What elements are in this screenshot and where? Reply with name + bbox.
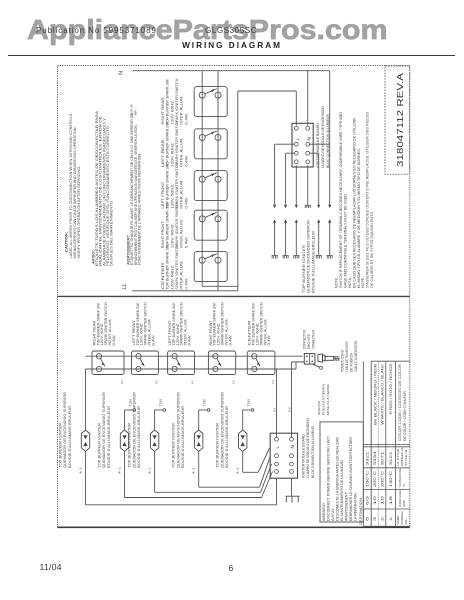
spark electrode lead at x=296.3 xyxy=(293,219,299,258)
wire: drop to module pin N (bottom) xyxy=(291,362,293,438)
svg-text:SWITCH IF REPLACEMENT OF TERMI: SWITCH IF REPLACEMENT OF TERMINALS BECOM… xyxy=(339,112,343,288)
svg-text:EL MANTENIMIENTO DE LA UNIDAD.: EL MANTENIMIENTO DE LA UNIDAD. xyxy=(340,459,344,521)
header rule xyxy=(8,55,455,56)
svg-text:4-3: 4-3 xyxy=(120,380,124,384)
note: WARNING block xyxy=(322,436,358,521)
wire: igniter E2 return staircase xyxy=(125,451,273,497)
svg-text:S'ASSURER SI DES FILS OU DES C: S'ASSURER SI DES FILS OU DES CORDES DOIV… xyxy=(366,111,370,288)
svg-text:DE COLOR / CODE COULEUR: DE COLOR / CODE COULEUR xyxy=(403,390,407,441)
svg-text:CENTER: CENTER xyxy=(161,262,165,290)
svg-text:INTER. ALLUM.: INTER. ALLUM. xyxy=(180,138,184,167)
svg-text:4-1: 4-1 xyxy=(147,466,151,474)
svg-text:TOP BURNER IGNITER: TOP BURNER IGNITER xyxy=(97,422,101,468)
svg-text:0.4W.: 0.4W. xyxy=(184,197,188,209)
svg-text:120V. 60HZ.: 120V. 60HZ. xyxy=(170,184,174,209)
wire: igniter E4 electrode lead with terminal xyxy=(199,409,210,430)
svg-text:4-3: 4-3 xyxy=(154,380,158,384)
svg-text:150°C: 150°C xyxy=(366,470,370,487)
wire: switch chain to igniter E1 xyxy=(85,369,87,430)
label: switch S8 LEFT FRONT xyxy=(168,302,192,346)
table text: row 1 UL style numbers xyxy=(366,451,394,465)
svg-text:4-1: 4-1 xyxy=(78,466,82,474)
svg-text:RIGHT FRONT: RIGHT FRONT xyxy=(161,221,165,248)
spark electrode lead at x=285.6 xyxy=(283,219,289,258)
svg-text:SPARK IGNITER SWITCH: SPARK IGNITER SWITCH xyxy=(175,78,179,125)
svg-text:AVISO:: AVISO: xyxy=(331,508,335,521)
footer page number xyxy=(229,563,234,573)
svg-text:INTER. ALLUM.: INTER. ALLUM. xyxy=(180,219,184,248)
switch S6 top-burner spark switch (RIGHT REAR, bottom row) xyxy=(92,351,124,375)
svg-text:NOTE:: NOTE: xyxy=(335,277,339,288)
wire: N bus horizontal xyxy=(133,70,330,72)
svg-text:0.4W.: 0.4W. xyxy=(151,334,155,345)
label: switch S6 RIGHT REAR xyxy=(92,302,116,346)
igniter E1 top burner igniter xyxy=(81,430,89,451)
svg-text:CABLE D'ALIMENTATION: CABLE D'ALIMENTATION xyxy=(354,341,358,372)
svg-text:NOTE:: NOTE: xyxy=(361,277,365,288)
svg-text:VERIFY PROPER OPERATION AFTER: VERIFY PROPER OPERATION AFTER SERVICING. xyxy=(77,166,81,259)
label: igniter E5 xyxy=(216,391,230,468)
svg-text:DESPUES DEL MANTENIMIENTO.: DESPUES DEL MANTENIMIENTO. xyxy=(110,200,114,266)
label: igniter module board (bottom) xyxy=(301,418,315,478)
svg-text:0.4W.: 0.4W. xyxy=(184,113,188,125)
note: AVERTISSEMENT block xyxy=(126,112,141,265)
model number overlay xyxy=(205,26,257,35)
svg-text:TOP BURNER IGNITER: TOP BURNER IGNITER xyxy=(302,244,306,293)
wire: ground lead xyxy=(312,364,320,367)
label: igniter E4 xyxy=(172,391,186,468)
svg-text:1: 1 xyxy=(389,517,393,521)
svg-text:3334: 3334 xyxy=(373,451,377,465)
svg-text:2: 2 xyxy=(380,517,384,521)
svg-text:TOP BURNER SPARK SW.: TOP BURNER SPARK SW. xyxy=(166,244,170,290)
svg-text:NOTA:: NOTA: xyxy=(348,277,352,288)
svg-text:PUESTA A TIERRA: PUESTA A TIERRA xyxy=(321,383,325,415)
svg-text:SPARK IGNITER SWITCH: SPARK IGNITER SWITCH xyxy=(175,120,179,167)
svg-text:BOUGIE D'ALLUMAGE-BRULEUR: BOUGIE D'ALLUMAGE-BRULEUR xyxy=(312,230,316,293)
label: igniter module board (top) xyxy=(316,106,330,168)
svg-text:0.4W.: 0.4W. xyxy=(188,334,192,345)
svg-text:T2B: T2B xyxy=(159,399,163,407)
note: NOTE wire replacement block xyxy=(335,111,375,288)
svg-text:SPARK IGNITER SWITCH: SPARK IGNITER SWITCH xyxy=(175,243,179,290)
svg-text:6/3: 6/3 xyxy=(366,496,370,505)
igniter E2 top burner igniter xyxy=(120,430,128,451)
svg-text:DISCONNECT POWER BEFORE SERVIC: DISCONNECT POWER BEFORE SERVICING UNIT. xyxy=(326,436,330,521)
wire: igniter E5 return staircase xyxy=(243,448,270,472)
label: top burner igniter (top section) xyxy=(302,220,316,293)
switch S1 top-burner spark switch (RIGHT REAR) xyxy=(194,87,227,117)
igniter E4 top burner igniter xyxy=(195,430,203,451)
label: power cord xyxy=(341,340,359,372)
svg-text:3321: 3321 xyxy=(366,451,370,465)
svg-text:0.4W.: 0.4W. xyxy=(267,334,271,345)
svg-text:WARNING:: WARNING: xyxy=(322,502,326,521)
svg-text:3121: 3121 xyxy=(389,451,393,465)
svg-text:DEBRANCHER LE COURANT AVANT D': DEBRANCHER LE COURANT AVANT D'EFFECTUER xyxy=(349,437,353,521)
label: switch S2 LEFT REAR xyxy=(161,120,189,167)
svg-text:°C: °C xyxy=(402,484,406,488)
svg-text:TOP BURNER IGNITER: TOP BURNER IGNITER xyxy=(58,422,62,468)
connector U1 igniter module board (top) xyxy=(292,123,313,167)
svg-text:TOP BURNER SPARK SW.: TOP BURNER SPARK SW. xyxy=(166,79,170,125)
table text: row 2 temperature ratings xyxy=(366,470,394,487)
svg-text:DESTINATION: DESTINATION xyxy=(359,497,363,525)
wire: igniter E1 return staircase xyxy=(86,451,277,505)
frame: diagram outer border xyxy=(58,66,410,528)
svg-text:TOP BURNER IGNITER: TOP BURNER IGNITER xyxy=(172,422,176,468)
chassis ground tabs xyxy=(286,496,300,503)
spark electrode lead at x=274.6 xyxy=(272,219,278,258)
label: switch S7 LEFT REAR xyxy=(132,302,156,346)
svg-text:DESCONECTE LA ENERGIA ANTES DE: DESCONECTE LA ENERGIA ANTES DE REALIZAR xyxy=(335,437,339,521)
svg-text:200°C: 200°C xyxy=(373,470,377,487)
wire: module pin3L stub xyxy=(286,152,295,154)
svg-text:8-2: 8-2 xyxy=(272,408,276,412)
connector U2 igniter module board (bottom) xyxy=(270,433,297,478)
switch S8 top-burner spark switch (LEFT FRONT, bottom row) xyxy=(168,351,195,375)
svg-text:0.4W.: 0.4W. xyxy=(184,155,188,167)
label: switch S10 CENTER xyxy=(248,302,272,346)
frame: horizontal divider between top and bottom schematic xyxy=(58,295,410,297)
svg-text:L: L xyxy=(275,446,280,449)
wire: bottom chain upper bus xyxy=(86,355,303,357)
switch S4 top-burner spark switch (RIGHT FRONT) xyxy=(194,210,227,240)
igniter E5 top burner igniter xyxy=(239,430,247,451)
power cord plug xyxy=(318,354,340,362)
svg-text:N: N xyxy=(290,445,295,448)
table text: wire number header xyxy=(396,512,408,525)
svg-text:STYLE UL: STYLE UL xyxy=(404,449,408,466)
wire label near N bus xyxy=(130,104,138,115)
svg-text:DE CALIBRE ET DE TYPES EQUIVAL: DE CALIBRE ET DE TYPES EQUIVALENTS. xyxy=(370,211,374,288)
svg-text:EL MISMO TIPO DE ALAMBRE Y DE: EL MISMO TIPO DE ALAMBRE Y DE MEDICION Y… xyxy=(357,148,361,288)
svg-text:200°C: 200°C xyxy=(380,470,384,487)
electrode tip (pin4R) xyxy=(305,205,311,208)
svg-text:DE FUERZA: DE FUERZA xyxy=(350,352,354,372)
svg-text:CUADRO DE MODULO DE ENCENDIDO: CUADRO DE MODULO DE ENCENDIDO xyxy=(321,106,325,168)
spark electrode lead at x=329.7 xyxy=(327,219,333,258)
table text: color code header xyxy=(398,363,407,441)
svg-text:0.4W.: 0.4W. xyxy=(184,278,188,290)
svg-text:4-1: 4-1 xyxy=(192,466,196,474)
svg-text:AVERTISSEMENT:: AVERTISSEMENT: xyxy=(344,492,348,521)
svg-text:N: N xyxy=(306,137,311,140)
frame: heavy bottom edge xyxy=(58,526,410,528)
wire: module pin4L drop xyxy=(295,165,297,204)
svg-text:CONNECTOR: CONNECTOR xyxy=(303,329,307,349)
svg-text:T2B: T2B xyxy=(203,399,207,407)
svg-text:TOP BURNER SPARK SW.: TOP BURNER SPARK SW. xyxy=(166,121,170,167)
svg-text:IGNITER MODULE BOARD: IGNITER MODULE BOARD xyxy=(316,123,320,168)
wire: N drop to module pin xyxy=(307,71,309,126)
note: AVISO block xyxy=(91,110,113,266)
wire: L1 riser xyxy=(237,91,239,291)
wire: L1 top horizontal to module xyxy=(238,90,296,92)
wire: switch bus A vertical xyxy=(201,71,203,287)
note: CAUTION block xyxy=(64,113,80,259)
switch S3 top-burner spark switch (LEFT FRONT) xyxy=(194,171,227,201)
svg-text:318047112 REV.A: 318047112 REV.A xyxy=(395,73,405,167)
svg-text:R RED / ROJO / ROUGE: R RED / ROJO / ROUGE xyxy=(389,364,393,415)
switch S9 top-burner spark switch (RIGHT FRONT, bottom row) xyxy=(208,351,235,375)
table text: row 3 wire gauge xyxy=(366,496,394,505)
svg-text:CUADRO DE MODULO DE ENCENDIDO: CUADRO DE MODULO DE ENCENDIDO xyxy=(306,418,310,478)
svg-text:4-3: 4-3 xyxy=(271,380,275,384)
wire: switch bus return run xyxy=(202,285,238,287)
svg-text:0.4W.: 0.4W. xyxy=(112,334,116,345)
svg-text:N-8: N-8 xyxy=(287,407,291,412)
svg-text:4-1: 4-1 xyxy=(236,466,240,474)
svg-text:QUEMADOR DE ENCENDIDO SUPERIOR: QUEMADOR DE ENCENDIDO SUPERIOR xyxy=(220,391,224,468)
wire: igniter E3 return staircase xyxy=(155,451,272,492)
label: switch S9 RIGHT FRONT xyxy=(209,302,233,346)
svg-text:LEFT FRONT: LEFT FRONT xyxy=(161,182,165,209)
label: igniter E1 xyxy=(58,391,72,468)
svg-text:ENCHUFE: ENCHUFE xyxy=(307,334,311,349)
svg-text:4-1: 4-1 xyxy=(117,466,121,474)
label: switch S5 CENTER xyxy=(161,243,189,290)
title block box 318047112 REV.A xyxy=(385,66,410,174)
svg-text:0.4W.: 0.4W. xyxy=(228,334,232,345)
svg-text:4-3: 4-3 xyxy=(191,380,195,384)
svg-text:L1: L1 xyxy=(122,284,128,290)
wire: igniter E2 electrode lead with terminal xyxy=(125,409,136,430)
svg-text:T2B: T2B xyxy=(247,399,251,407)
svg-text:SPARK IGNITER SWITCH: SPARK IGNITER SWITCH xyxy=(175,202,179,249)
svg-text:CAUTION:: CAUTION: xyxy=(64,232,68,252)
svg-text:MISE A LA TERRE: MISE A LA TERRE xyxy=(326,384,330,415)
publication number overlay xyxy=(36,26,157,35)
svg-text:150°C: 150°C xyxy=(389,470,393,487)
svg-text:EN CASO QUE SEA NECESARIO DE R: EN CASO QUE SEA NECESARIO DE REEMPLAZAR … xyxy=(352,118,356,288)
AppliancePartsPros.com watermark logo xyxy=(27,14,388,46)
svg-text:TOP BURNER IGNITER: TOP BURNER IGNITER xyxy=(216,422,220,468)
label: switch S1 RIGHT REAR xyxy=(161,78,189,125)
svg-text:10: 10 xyxy=(380,496,384,505)
svg-text:INTER. ALLUM.: INTER. ALLUM. xyxy=(180,180,184,209)
wire: L1 horizontal run xyxy=(132,290,238,292)
svg-text:120V. 60HZ.: 120V. 60HZ. xyxy=(170,100,174,125)
wire: switch bus B vertical xyxy=(217,71,219,291)
switch S2 top-burner spark switch (LEFT REAR) xyxy=(194,129,227,159)
svg-text:TOP BURNER SPARK SW.: TOP BURNER SPARK SW. xyxy=(166,202,170,248)
svg-text:INTER. ALLUM.: INTER. ALLUM. xyxy=(180,261,184,290)
svg-text:L: L xyxy=(295,138,300,141)
svg-text:QUEMADOR DE ENCENDIDO SUPERIOR: QUEMADOR DE ENCENDIDO SUPERIOR xyxy=(102,391,106,468)
switch S5 top-burner spark switch (CENTER) xyxy=(194,252,227,282)
svg-text:BOUGIE D'ALLUMAGE-BRULEUR: BOUGIE D'ALLUMAGE-BRULEUR xyxy=(68,405,72,468)
svg-text:QUEMADOR DE ENCENDIDO SUPERIOR: QUEMADOR DE ENCENDIDO SUPERIOR xyxy=(307,220,311,293)
svg-text:BK BLACK / NEGRO / NOIR: BK BLACK / NEGRO / NOIR xyxy=(373,363,377,425)
wire: L drop to module pin xyxy=(295,91,297,126)
table text: wire gage header xyxy=(398,490,406,507)
wire: module pin2R stub xyxy=(309,143,329,145)
wire: module bottom lead to L1 run xyxy=(276,478,278,505)
svg-text:GAGE AND COMPATIBLE TERMINALS: GAGE AND COMPATIBLE TERMINALS MUST BE US… xyxy=(343,193,347,288)
footer date xyxy=(40,562,62,572)
svg-text:QUEMADOR DE ENCENDIDO SUPERIOR: QUEMADOR DE ENCENDIDO SUPERIOR xyxy=(63,391,67,468)
wire: N branch / igniter output right xyxy=(329,71,331,205)
svg-text:QUEMADOR DE ENCENDIDO SUPERIOR: QUEMADOR DE ENCENDIDO SUPERIOR xyxy=(176,391,180,468)
svg-text:3071: 3071 xyxy=(380,451,384,465)
svg-text:3: 3 xyxy=(373,517,377,521)
svg-text:IGNITER MODULE BOARD: IGNITER MODULE BOARD xyxy=(301,434,305,478)
label: switch S3 LEFT FRONT xyxy=(161,162,189,209)
svg-text:BOUGIE D'ALLUMAGE-BRULEUR: BOUGIE D'ALLUMAGE-BRULEUR xyxy=(137,405,141,468)
svg-text:POWER CORD: POWER CORD xyxy=(341,349,345,372)
svg-text:RIGHT REAR: RIGHT REAR xyxy=(161,97,165,125)
igniter E3 top burner igniter xyxy=(150,430,158,451)
label: switch S4 RIGHT FRONT xyxy=(161,202,189,249)
svg-text:6: 6 xyxy=(366,517,370,521)
svg-text:CONNECTEUR: CONNECTEUR xyxy=(312,329,316,349)
svg-text:BLOC CONNECTION ALLUMEUR: BLOC CONNECTION ALLUMEUR xyxy=(326,114,330,168)
ground terminal xyxy=(320,366,323,369)
svg-text:FONCTIONNEMENT DE L'APPAREIL A: FONCTIONNEMENT DE L'APPAREIL APRES TOUTE… xyxy=(138,153,142,265)
svg-text:LEFT REAR: LEFT REAR xyxy=(161,139,165,167)
wire: bottom chain lower bus xyxy=(86,368,297,370)
svg-text:COLOR CODE / CODIGOS DE COLOR: COLOR CODE / CODIGOS DE COLOR xyxy=(398,363,402,441)
svg-text:FIL: FIL xyxy=(404,518,408,525)
title WIRING DIAGRAM xyxy=(0,41,464,50)
svg-text:BOUGIE D'ALLUMAGE-BRULEUR: BOUGIE D'ALLUMAGE-BRULEUR xyxy=(107,405,111,468)
svg-text:0.4W.: 0.4W. xyxy=(184,236,188,248)
wire: drop to module pin L (bottom) xyxy=(276,369,278,437)
wire: module pin4R drop to electrode xyxy=(307,165,309,204)
table text: UL style header xyxy=(396,447,408,466)
wire: module bottom lead to chassis tabs xyxy=(291,478,293,495)
wire: module pin2L stub xyxy=(275,143,295,145)
wire: igniter E4 return staircase xyxy=(199,451,271,487)
wire: igniter E5 electrode lead with terminal xyxy=(243,409,254,430)
svg-text:QUEMADOR DE ENCENDIDO SUPERIOR: QUEMADOR DE ENCENDIDO SUPERIOR xyxy=(132,391,136,468)
wire: igniter E3 electrode lead with terminal xyxy=(155,409,166,430)
svg-text:INTER. ALLUM.: INTER. ALLUM. xyxy=(180,96,184,125)
svg-text:BOUGIE D'ALLUMAGE-BRULEUR: BOUGIE D'ALLUMAGE-BRULEUR xyxy=(181,405,185,468)
table text: row 4 wire numbers xyxy=(366,517,394,521)
label: igniter E2 xyxy=(97,391,111,468)
table: wire specification / color code xyxy=(363,361,410,526)
svg-text:N: N xyxy=(119,71,125,75)
switch S10 top-burner spark switch (CENTER, bottom row) xyxy=(247,351,275,375)
svg-text:AWG: AWG xyxy=(402,499,406,507)
svg-text:10: 10 xyxy=(373,496,377,505)
label: ground xyxy=(317,383,330,415)
svg-text:BOUGIE D'ALLUMAGE-BRULEUR: BOUGIE D'ALLUMAGE-BRULEUR xyxy=(225,405,229,468)
svg-text:4-3: 4-3 xyxy=(232,380,236,384)
label: connector xyxy=(303,329,316,349)
svg-text:120V. 60HZ.: 120V. 60HZ. xyxy=(170,223,174,248)
switch S7 top-burner spark switch (LEFT REAR, bottom row) xyxy=(132,351,159,375)
svg-text:SPARK IGNITER SWITCH: SPARK IGNITER SWITCH xyxy=(175,162,179,209)
table text: temperature header xyxy=(398,468,406,487)
svg-text:GROUND: GROUND xyxy=(317,400,321,415)
svg-text:TOP BURNER IGNITER: TOP BURNER IGNITER xyxy=(128,422,132,468)
connector J1 power cord connector xyxy=(304,354,315,365)
warning box border xyxy=(320,422,363,522)
svg-text:CABLE DE TRANSPORTE: CABLE DE TRANSPORTE xyxy=(345,340,349,372)
svg-text:W WHITE / BLANCO / BLANC: W WHITE / BLANCO / BLANC xyxy=(381,363,385,425)
svg-text:18: 18 xyxy=(389,496,393,505)
svg-text:120V. 60HZ.: 120V. 60HZ. xyxy=(170,142,174,167)
spark electrode lead at x=318.7 xyxy=(316,219,322,258)
svg-text:TOP BURNER SPARK SW.: TOP BURNER SPARK SW. xyxy=(166,163,170,209)
wire: module pin3R stub xyxy=(309,152,318,154)
svg-text:120V. 60HZ.: 120V. 60HZ. xyxy=(170,265,174,290)
label: igniter E3 xyxy=(128,391,142,468)
svg-text:BLOC CONNECTION ALLUMEUR: BLOC CONNECTION ALLUMEUR xyxy=(311,426,315,478)
svg-text:LA REPARATION.: LA REPARATION. xyxy=(353,492,357,521)
